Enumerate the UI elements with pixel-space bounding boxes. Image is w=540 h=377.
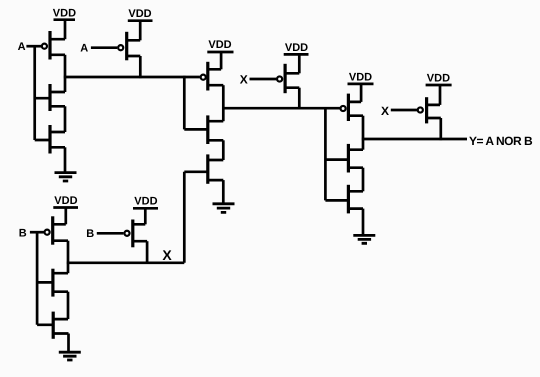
wire M4 drain to node N1 [139,56,142,78]
VDD rail 2 (A follower) [128,8,153,40]
nmos M2 (gate A) [50,84,65,111]
ground 1 [55,173,77,181]
wire M10 to M11 [362,168,365,192]
svg-text:X: X [240,73,248,87]
nmos M14 (gate B) [53,269,68,297]
wire N2 branch down to M10 M11 gates [325,107,348,200]
wire M6 to M7 [222,140,225,160]
wire A gate bus down to M2 M3 [35,45,50,140]
svg-text:VDD: VDD [53,7,76,19]
svg-text:B: B [19,228,27,240]
wire M12 drain to node Y [439,118,442,140]
node B label [19,228,27,240]
wire M9 drain to node Y and M10 [362,116,365,150]
VDD rail 4 (X follower) [284,42,309,73]
VDD rail 8 (B follower) [133,196,158,225]
wire M3 drain to ground [64,147,67,172]
svg-text:X: X [162,247,172,263]
pmos M16 (gate B) [124,220,147,248]
node Y wire (output, y=139) [362,138,467,141]
wire M1 drain to node N1 and M2 [64,55,67,92]
pmos M4 (gate A) [118,32,140,61]
wire M15 drain to ground [67,334,70,352]
node X label [162,247,172,263]
wire X gate lead to M12 [391,109,417,112]
wire M16 drain to node X [146,241,149,264]
pmos M5 (gate N1) [201,62,224,91]
wire M2 to M3 [64,106,67,132]
node Y output label [469,134,533,148]
wire M7 gate from node X [184,172,208,263]
nmos M15 (gate B) [53,312,68,339]
node X label (input of M8) [240,73,248,87]
wire A2 gate lead [91,46,117,49]
node N2 wire (stage-2 output, y=108.2) [222,107,340,110]
nmos M7 (gate X) [208,154,224,183]
wire X gate lead to M8 [250,78,277,81]
VDD rail 3 (stage 2 pmos) [207,39,233,70]
ground 2 [213,204,235,213]
nmos M3 (gate A) [50,125,65,154]
svg-text:VDD: VDD [54,195,77,207]
node N1 wire (stage-1 output, y=77) [64,76,200,79]
svg-text:VDD: VDD [134,196,157,208]
svg-text:A: A [18,41,26,53]
wire M14 to M15 [67,292,70,319]
wire M13 drain to node X and M14 [67,241,70,274]
wire B2 gate lead [97,232,124,235]
nmos M11 (gate N2) [348,185,363,214]
wire B gate lead [30,231,44,234]
svg-text:A: A [80,43,88,55]
pmos M9 (gate N2) [341,94,363,121]
node X label (input of M12) [381,104,389,118]
pmos M12 (gate X) [418,97,441,123]
node B label 2 [86,228,94,240]
nmos M6 (gate N1) [208,115,224,144]
VDD rail 5 (stage 3 pmos) [348,71,374,102]
svg-text:VDD: VDD [128,8,151,20]
ground 4 [59,352,81,360]
svg-text:VDD: VDD [349,71,372,83]
svg-text:VDD: VDD [427,72,450,84]
wire M8 drain to node N2 [298,88,301,110]
node A label [18,41,26,53]
node A label 2 [80,43,88,55]
ground 3 [353,235,375,243]
wire N1 branch down to M6 gate [184,76,208,130]
VDD rail 7 (block B inverter) [53,195,78,224]
wire A gate lead [26,45,41,48]
pmos M8 (gate X) [277,64,299,93]
svg-text:X: X [381,104,389,118]
wire M7 drain to ground [222,180,225,203]
pmos M1 (gate A) [42,31,65,60]
nmos M10 (gate N2) [348,144,363,173]
VDD rail 1 (block A inverter) [53,7,76,39]
wire B gate bus down to M14 M15 [37,231,53,325]
svg-text:Y= A NOR B: Y= A NOR B [469,134,533,148]
node X wire (stage-B output, y=262.8) [67,261,185,264]
wire M5 drain to node N2 and M6 [222,85,225,121]
svg-text:B: B [86,228,94,240]
VDD rail 6 (X follower right) [426,72,452,105]
pmos M13 (gate B) [45,216,68,244]
wire M11 drain to ground [362,209,365,236]
svg-text:VDD: VDD [285,42,308,54]
svg-text:VDD: VDD [208,39,231,51]
